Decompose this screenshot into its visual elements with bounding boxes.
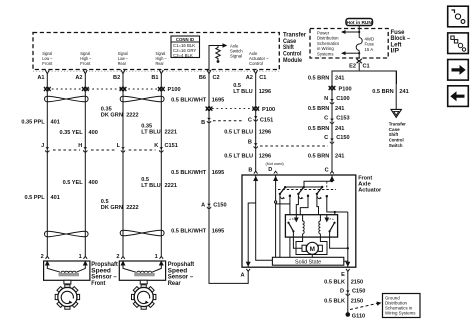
ground G110 <box>346 312 351 317</box>
wire label lt blu b <box>224 130 271 136</box>
button next arrow <box>448 60 469 81</box>
svg-text:Wiring Systems: Wiring Systems <box>385 311 416 316</box>
svg-text:D: D <box>268 167 272 173</box>
svg-text:2222: 2222 <box>126 205 138 211</box>
svg-text:B: B <box>248 139 252 145</box>
svg-text:B: B <box>248 167 252 173</box>
svg-text:C: C <box>325 167 329 173</box>
propshaft speed sensor rear box <box>119 256 165 280</box>
interior: A riser and B bar <box>248 182 272 262</box>
svg-text:0.5 BLK: 0.5 BLK <box>324 299 345 305</box>
C terminal label at actuator <box>325 167 329 173</box>
svg-text:C151: C151 <box>165 143 178 149</box>
label brn a <box>308 76 344 82</box>
switch text <box>389 121 406 147</box>
svg-text:H: H <box>78 143 82 149</box>
motor feeds <box>293 237 347 257</box>
signal labels inside module <box>42 51 167 66</box>
break A C150 on B6 wire <box>207 204 211 209</box>
svg-text:0.5 LT BLU: 0.5 LT BLU <box>224 154 253 160</box>
pin forks at module bottom <box>45 70 257 74</box>
axle switch signal text <box>230 44 243 59</box>
off page triangle transfer case shift control switch <box>391 109 401 117</box>
break C C153 <box>330 119 334 124</box>
svg-text:Switch: Switch <box>389 143 403 148</box>
transfer case shift control module box <box>33 33 279 72</box>
svg-text:C: C <box>324 115 328 121</box>
svg-text:B2: B2 <box>113 75 120 81</box>
svg-text:P100: P100 <box>262 107 275 113</box>
svg-text:Axle: Axle <box>358 181 371 187</box>
svg-text:C3=4 BLK: C3=4 BLK <box>173 53 193 58</box>
svg-text:C150: C150 <box>336 135 349 141</box>
svg-text:15 A: 15 A <box>365 47 374 52</box>
svg-text:2150: 2150 <box>351 299 363 305</box>
svg-text:Solid State: Solid State <box>295 260 321 266</box>
svg-text:A: A <box>240 273 244 279</box>
svg-text:0.5 BLK/WHT: 0.5 BLK/WHT <box>171 170 207 176</box>
svg-text:E2: E2 <box>349 64 356 70</box>
label brn d <box>308 154 344 160</box>
button back arrow <box>448 86 469 107</box>
break B C150-line on lt blu <box>254 143 328 148</box>
svg-text:Control: Control <box>389 137 404 142</box>
svg-text:C100: C100 <box>336 96 349 102</box>
svg-text:2222: 2222 <box>126 112 138 118</box>
svg-text:C1: C1 <box>259 75 266 81</box>
svg-text:N: N <box>324 96 328 102</box>
svg-text:Transfer: Transfer <box>389 121 406 126</box>
svg-text:D: D <box>340 289 344 295</box>
svg-text:Control: Control <box>249 61 263 66</box>
svg-text:400: 400 <box>89 130 98 136</box>
svg-text:0.5 YEL: 0.5 YEL <box>63 180 84 186</box>
pin labels <box>37 75 266 81</box>
wire B1 signal high rear <box>160 74 162 256</box>
break N C100 <box>330 99 334 104</box>
svg-text:G110: G110 <box>352 313 365 319</box>
switch 3 <box>316 186 348 215</box>
wire label lt blu a <box>233 83 271 95</box>
svg-text:1: 1 <box>155 254 158 260</box>
svg-text:B1: B1 <box>151 75 158 81</box>
wire hot in run to fuse <box>341 26 360 38</box>
svg-text:CONN ID: CONN ID <box>176 37 194 42</box>
P100 grommet line (sensor wires) <box>44 87 181 93</box>
break B on B6 wire <box>207 118 243 123</box>
svg-text:Module: Module <box>283 57 302 64</box>
propshaft rear text <box>168 261 195 287</box>
axle switch signal resistor inside module <box>209 43 227 71</box>
svg-text:B6: B6 <box>199 75 206 81</box>
svg-text:A: A <box>201 202 205 208</box>
fuse block text <box>391 29 411 55</box>
svg-text:A2: A2 <box>246 75 253 81</box>
svg-text:K: K <box>154 143 158 149</box>
svg-text:1695: 1695 <box>212 98 224 104</box>
power distribution text <box>317 31 339 57</box>
relay inner box <box>285 215 337 237</box>
sensor front stem <box>64 280 71 284</box>
svg-text:2150: 2150 <box>351 280 363 286</box>
axle actuator control text <box>249 51 269 66</box>
svg-text:Front: Front <box>42 61 53 66</box>
svg-text:0.5 BRN: 0.5 BRN <box>308 76 329 82</box>
sensor front terminals labels <box>41 254 82 260</box>
svg-text:M: M <box>310 246 315 253</box>
wire A2 signal high front <box>84 74 86 256</box>
hot in run label <box>346 19 373 26</box>
interior: D post down to solid state <box>275 182 290 258</box>
module name text <box>283 32 306 64</box>
terminal posts top B D C <box>254 175 334 182</box>
D terminal not used <box>266 161 285 173</box>
terminal posts bottom A E <box>247 261 350 267</box>
wire labels upper <box>21 106 177 136</box>
label brn b <box>308 106 344 112</box>
dashed arrow to ground box <box>350 302 382 310</box>
wire label blk/wht 1 <box>171 98 224 104</box>
svg-text:C1: C1 <box>363 64 370 70</box>
twisted pair rear upper <box>120 96 164 102</box>
svg-text:0.35 PPL: 0.35 PPL <box>21 119 45 125</box>
svg-text:0.5 BRN: 0.5 BRN <box>308 106 329 112</box>
CONN ID table <box>171 36 200 58</box>
svg-text:400: 400 <box>89 180 98 186</box>
svg-text:(Not used): (Not used) <box>266 161 285 166</box>
svg-text:A2: A2 <box>75 75 82 81</box>
A terminal label at actuator <box>240 273 244 279</box>
svg-text:C150: C150 <box>352 289 365 295</box>
twisted pair rear lower <box>120 230 164 236</box>
wire label blk/wht 2 <box>171 170 224 176</box>
svg-text:0.5 LT BLU: 0.5 LT BLU <box>224 130 253 136</box>
wire label lt blu c <box>224 154 271 160</box>
svg-text:Case: Case <box>389 127 400 132</box>
wire label blk/wht 3 <box>171 229 224 235</box>
mechanical linkage dashed <box>278 180 336 189</box>
svg-text:L: L <box>117 143 121 149</box>
front axle actuator box <box>242 175 356 267</box>
wire brn 241 chain <box>330 74 334 174</box>
svg-text:I/P: I/P <box>391 48 400 55</box>
svg-text:0.5 BRN: 0.5 BRN <box>308 126 329 132</box>
svg-text:Systems: Systems <box>317 51 333 56</box>
svg-text:LT BLU: LT BLU <box>141 129 160 135</box>
svg-text:Rear: Rear <box>118 61 127 66</box>
svg-text:0.5 BRN: 0.5 BRN <box>308 154 329 160</box>
svg-text:0.5 PPL: 0.5 PPL <box>24 195 45 201</box>
svg-text:241: 241 <box>399 89 408 95</box>
svg-text:1296: 1296 <box>259 130 271 136</box>
svg-text:2221: 2221 <box>165 183 177 189</box>
svg-text:LT BLU: LT BLU <box>233 89 252 95</box>
svg-text:LT BLU: LT BLU <box>141 183 160 189</box>
svg-text:0.5 BLK: 0.5 BLK <box>324 280 345 286</box>
svg-text:P100: P100 <box>168 87 181 93</box>
fuse block box <box>310 29 388 59</box>
relay left coil <box>303 215 305 237</box>
wire E blk 2150 <box>346 269 350 313</box>
twisted pair front upper <box>45 96 89 102</box>
svg-text:1: 1 <box>79 254 82 260</box>
sensor rear terminals labels <box>116 254 157 260</box>
wire A2/C1 lt blu 1296 <box>254 74 258 174</box>
motor M <box>302 242 322 254</box>
svg-text:Actuator: Actuator <box>358 188 382 194</box>
propshaft speed sensor front box <box>44 256 90 280</box>
relay right coil <box>319 215 321 237</box>
wire B2 signal low rear <box>122 74 124 256</box>
reluctor gear rear <box>131 285 155 309</box>
reluctor gear front <box>55 285 79 309</box>
svg-text:Rear: Rear <box>156 61 165 66</box>
4wd fuse text <box>365 37 375 52</box>
svg-text:2: 2 <box>41 254 44 260</box>
svg-text:A1: A1 <box>37 75 44 81</box>
button shrink <box>448 6 469 27</box>
P100 grommet middle <box>206 107 275 113</box>
svg-text:Hot in RUN: Hot in RUN <box>347 20 373 26</box>
P100 on brn <box>329 86 352 92</box>
svg-text:0.5 BRN: 0.5 BRN <box>372 89 393 95</box>
svg-text:1296: 1296 <box>259 154 271 160</box>
svg-text:Signal: Signal <box>230 54 242 59</box>
B terminal label at actuator <box>248 167 252 173</box>
svg-text:0.35 YEL: 0.35 YEL <box>59 130 83 136</box>
lower arrow in fuse block <box>341 51 360 59</box>
svg-text:241: 241 <box>335 106 344 112</box>
svg-text:401: 401 <box>51 195 60 201</box>
svg-text:P100: P100 <box>339 86 352 92</box>
wire A1 signal low front <box>46 74 48 256</box>
connector E2 C1 at fuse block <box>357 59 362 65</box>
svg-text:0.5 BLK/WHT: 0.5 BLK/WHT <box>171 229 207 235</box>
svg-text:2: 2 <box>116 254 119 260</box>
svg-text:241: 241 <box>335 76 344 82</box>
svg-text:Front: Front <box>80 61 91 66</box>
button enlarge <box>448 33 469 54</box>
svg-text:401: 401 <box>51 119 60 125</box>
svg-text:1296: 1296 <box>259 89 271 95</box>
svg-text:Front: Front <box>91 280 105 287</box>
svg-text:0.5 BLK/WHT: 0.5 BLK/WHT <box>171 98 207 104</box>
fuse 4wd <box>356 38 362 51</box>
wire labels lower <box>24 177 176 211</box>
propshaft front text <box>91 261 118 287</box>
bus from E2/C1 splitting <box>332 65 397 84</box>
svg-text:1695: 1695 <box>212 170 224 176</box>
switch 2 <box>296 186 309 215</box>
switch 1 <box>279 186 291 257</box>
svg-text:2221: 2221 <box>165 129 177 135</box>
relay right: arrow post and blade <box>325 215 335 237</box>
svg-text:Rear: Rear <box>168 280 182 287</box>
svg-text:J: J <box>41 143 44 149</box>
svg-text:241: 241 <box>335 154 344 160</box>
twisted pair front lower <box>45 231 89 237</box>
solid state box <box>272 257 347 265</box>
label brn c <box>308 126 344 132</box>
sensor rear stem <box>140 280 147 284</box>
wire B6 blk/wht 1695 <box>209 74 250 283</box>
svg-text:C153: C153 <box>336 115 349 121</box>
relay left: arrow post and blade <box>287 215 298 237</box>
interior: C feed to switch bar <box>285 181 332 187</box>
C151 breaks J H L K <box>45 147 163 152</box>
svg-text:C2: C2 <box>213 75 220 81</box>
svg-text:DK GRN: DK GRN <box>101 205 123 211</box>
svg-text:1695: 1695 <box>212 229 224 235</box>
E riser <box>347 212 349 262</box>
break D C150 ground <box>346 291 350 296</box>
svg-text:C150: C150 <box>213 202 226 208</box>
svg-text:C: C <box>324 135 328 141</box>
svg-text:241: 241 <box>335 126 344 132</box>
svg-text:C: C <box>248 117 252 123</box>
svg-text:B: B <box>201 120 205 126</box>
svg-text:E: E <box>341 272 345 278</box>
svg-text:Shift: Shift <box>389 132 399 137</box>
right buttons <box>448 6 469 106</box>
wire brn to switch <box>395 71 397 109</box>
svg-text:C151: C151 <box>260 117 273 123</box>
break C C150 <box>330 139 334 144</box>
ground distribution reference box <box>383 294 421 318</box>
svg-text:DK GRN: DK GRN <box>101 112 123 118</box>
front axle actuator text <box>358 176 382 194</box>
break C C151 on lt blu <box>254 116 258 121</box>
